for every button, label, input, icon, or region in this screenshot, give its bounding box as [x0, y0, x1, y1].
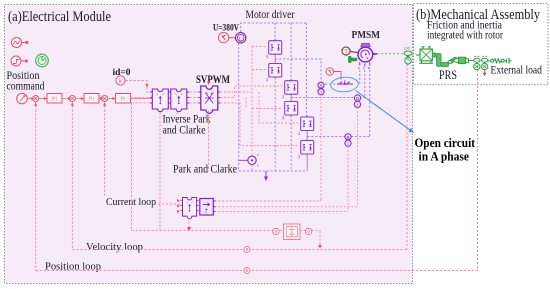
- panel (b) Mechanical Assembly background: [414, 4, 549, 85]
- transistor Q3 leg B top: [282, 79, 298, 99]
- wire gate signal B bottom: [252, 108, 283, 110]
- wire transform block1 theta stub: [159, 109, 161, 231]
- position sensor pair 1: [474, 56, 480, 69]
- label Open circuit in A phase: [415, 136, 476, 164]
- svg-text:U=380V: U=380V: [213, 23, 239, 33]
- transistor Q5 leg C top: [298, 115, 314, 135]
- shaft coupling: [432, 53, 435, 57]
- svg-text:Park and Clarke: Park and Clarke: [173, 164, 237, 176]
- wire velocity loop drop from junction J2: [71, 102, 73, 250]
- icon signal source step: [11, 56, 28, 66]
- motor bottom pins: [360, 62, 370, 67]
- blue annotation arrow: [356, 91, 414, 133]
- circle right of divide block: [305, 228, 311, 234]
- wire k to U source: [229, 37, 235, 39]
- main row wire: [28, 98, 182, 100]
- wire block2 to SVPWM pins: [189, 92, 198, 103]
- svg-text:Motor driver: Motor driver: [246, 9, 295, 21]
- svg-text:PI: PI: [121, 96, 126, 102]
- id=0 constant source: [116, 76, 125, 85]
- wire leg B down to rail: [290, 115, 292, 171]
- arrow id=0 corner: [146, 84, 149, 88]
- source dial (position command input): [17, 93, 28, 104]
- circle left of divide block: [273, 228, 279, 234]
- label Position command: [7, 70, 45, 93]
- wire velocity loop horizontal: [72, 249, 407, 251]
- sensor pair phase A: [318, 82, 324, 95]
- wire motor pin u down: [359, 70, 361, 84]
- svg-text:id=0: id=0: [113, 67, 132, 77]
- wire phase B sensor drop to current fb: [357, 107, 359, 206]
- wire current feedback q: [215, 206, 358, 208]
- wire dc bottom rail: [239, 43, 307, 171]
- wire leg C down to rail: [306, 154, 308, 171]
- PI block 2: [84, 94, 99, 104]
- svg-text:PI: PI: [52, 96, 57, 102]
- wire theta drop from block1 bottom-left pin: [131, 103, 133, 231]
- wire leg C mid: [306, 131, 308, 141]
- junction J2: [69, 95, 75, 101]
- arrow current block stub: [187, 227, 192, 231]
- wire svpwm pin3 to leg C gates: [220, 103, 298, 146]
- svg-text:External load: External load: [491, 65, 543, 77]
- wire gate signal A top: [252, 46, 267, 48]
- wire PI3 to transform block1: [131, 97, 153, 99]
- wire gate aux vertical x246: [245, 98, 247, 109]
- highlight ellipse open circuit: [330, 76, 359, 92]
- PI block 3: [116, 94, 131, 104]
- speed sensor green: [404, 47, 413, 66]
- wire gate signal C top: [259, 92, 299, 123]
- arrow into SVPWM top: [207, 82, 210, 86]
- wire motor shaft to speed sensor green: [377, 53, 403, 55]
- icon signal source sine (top-left): [12, 38, 29, 48]
- wire transform block2 theta stub: [176, 109, 178, 115]
- svg-text:in A phase: in A phase: [419, 150, 470, 164]
- svg-text:and Clarke: and Clarke: [163, 125, 206, 137]
- svg-text:Open circuit: Open circuit: [415, 136, 476, 150]
- svg-text:SVPWM: SVPWM: [196, 72, 230, 86]
- panel (a) Electrical Module background: [5, 5, 413, 284]
- wire id=0 to block1 top pin: [126, 81, 151, 93]
- wire phase C sensor drop to current fb: [347, 146, 349, 211]
- junction J1: [33, 95, 39, 101]
- wire current block bottom stub: [188, 218, 190, 228]
- wire current loop horizontal into blocks: [158, 203, 181, 205]
- wire phase B horizontal: [291, 97, 365, 99]
- transform block U2 inverse clarke: [169, 89, 190, 112]
- open circuit star symbol: [337, 81, 353, 86]
- wire dc rail stub leg B: [290, 23, 292, 80]
- wire divide row branch down to velocity loop: [319, 231, 321, 246]
- label Friction and inertia integrated with rotor: [427, 20, 503, 42]
- transistor Q1 leg A top: [266, 39, 282, 59]
- divide block: [284, 224, 301, 240]
- arrowheads on main row: [31, 97, 115, 100]
- rotary inertia block: [416, 47, 433, 64]
- spring damper external load: [488, 58, 511, 64]
- svg-text:integrated with rotor: integrated with rotor: [427, 30, 503, 42]
- PI block 1: [47, 94, 62, 104]
- constant source k for open circuit: [326, 68, 334, 76]
- svg-text:Velocity loop: Velocity loop: [86, 241, 143, 253]
- wire leg A mid: [274, 55, 276, 64]
- svg-text:command: command: [7, 81, 45, 93]
- wire k to open circuit switch: [334, 72, 341, 80]
- rocker lever: [448, 57, 459, 63]
- wire position loop drop from junction J1: [35, 102, 37, 271]
- wire gate signal A bottom: [252, 69, 267, 71]
- svg-text:100: 100: [404, 47, 410, 51]
- wire phase A sensor drop to current fb: [320, 95, 322, 201]
- wire block1 bottom-left pin from theta column: [132, 102, 151, 104]
- SVPWM block U3: [199, 86, 221, 113]
- arrow junction divide row onto velocity loop: [318, 245, 322, 249]
- svg-text:PI: PI: [89, 96, 94, 102]
- elbow crank: [437, 54, 449, 67]
- svg-text:(a)Electrical Module: (a)Electrical Module: [8, 9, 111, 25]
- label Inverse Park and Clarke: [163, 114, 211, 137]
- lead screw PRS: [453, 57, 474, 63]
- svg-text:PRS: PRS: [439, 68, 457, 82]
- wire phase A horizontal: [275, 59, 321, 82]
- torque sensor T: [342, 47, 358, 55]
- wire current feedback d: [215, 198, 321, 201]
- wire speed sensor into panel b: [412, 53, 416, 55]
- wire dc rail stub leg A: [274, 23, 276, 40]
- wire current loop drop from junction J3: [104, 102, 106, 197]
- wire svpwm pin2 u-turn: [220, 86, 282, 98]
- svg-text:U: U: [238, 35, 243, 42]
- wire dc top rail: [241, 23, 307, 32]
- wire current feedback 0: [215, 210, 349, 212]
- ground arrow below sensor pair 2: [483, 70, 487, 76]
- sensor pair phase B: [354, 95, 360, 108]
- constant source k for U: [219, 33, 229, 43]
- wire svpwm pin1 to x252: [220, 91, 252, 93]
- current loop block clarke: [200, 199, 216, 216]
- sensor pair phase C: [345, 134, 351, 147]
- arrowheads into current loop block: [177, 199, 180, 213]
- PMSM motor M1: [358, 44, 373, 62]
- ground arrow on dc bottom rail: [264, 171, 268, 181]
- junction J3: [102, 95, 108, 101]
- wire motor pin w down: [369, 70, 371, 137]
- wire gate vertical x252: [251, 47, 253, 156]
- converter circle on velocity loop: [244, 247, 250, 253]
- converter circle on position loop: [244, 268, 250, 274]
- svg-text:Current loop: Current loop: [106, 196, 156, 208]
- wire dc rail stub leg C: [306, 23, 308, 116]
- green mount connector: [349, 57, 357, 63]
- current loop block park: [180, 198, 198, 219]
- wire phase C horizontal: [307, 136, 370, 138]
- svg-text:w: w: [368, 66, 371, 70]
- wire leg A down to rail: [274, 77, 276, 171]
- transistor Q2 leg A bottom: [266, 62, 282, 82]
- wire theta line horizontal (divide row): [132, 230, 321, 232]
- wire block1-block2 pins: [169, 97, 171, 99]
- wire position loop horizontal: [36, 270, 478, 272]
- motor shaft pin right: [373, 53, 377, 55]
- svg-text:PMSM: PMSM: [352, 29, 381, 41]
- transform block U1 inverse park: [150, 89, 171, 112]
- feedback arrowheads into junctions: [34, 103, 106, 106]
- transistor Q6 leg C bottom: [298, 139, 314, 159]
- svg-text:v: v: [363, 66, 365, 70]
- sensor circle park and clarke theta: [239, 154, 259, 171]
- wire leg B mid: [290, 95, 292, 102]
- icon green clock: [36, 54, 49, 67]
- wire position loop feedback vertical from mechanical panel: [477, 70, 479, 271]
- position sensor pair 2: [481, 56, 487, 69]
- wire SVPWM bottom stub down to dc rail: [208, 111, 210, 172]
- transistor Q4 leg B bottom: [282, 100, 298, 120]
- voltage source U: [236, 33, 246, 43]
- wire phase A to star: [321, 83, 337, 85]
- wire motor pin v down: [364, 70, 366, 98]
- wire velocity loop feedback vertical from speed sensor: [406, 64, 408, 250]
- svg-text:u: u: [358, 66, 360, 70]
